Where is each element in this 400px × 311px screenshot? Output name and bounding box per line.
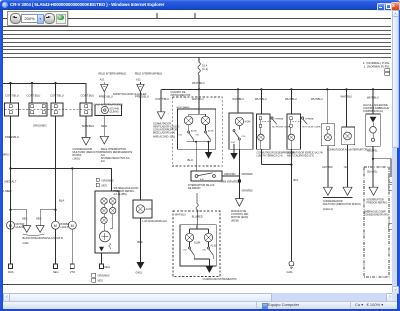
- window borders: [0, 10, 3, 311]
- node branch solenoid: [372, 158, 374, 160]
- tee split lower: [190, 225, 209, 234]
- pushbutton contact B: [301, 117, 321, 128]
- internal wires: [104, 204, 113, 231]
- svg-text:PRESION REFRIG.: PRESION REFRIG.: [367, 201, 388, 204]
- svg-text:BLU/YEL: BLU/YEL: [367, 149, 378, 152]
- svg-text:GRY/BLK: GRY/BLK: [322, 166, 333, 169]
- wire drop to washer motor: [71, 169, 73, 222]
- svg-text:BLK/YEL: BLK/YEL: [367, 170, 378, 173]
- svg-text:ON: ON: [183, 250, 187, 252]
- svg-text:WHT/BLU: WHT/BLU: [255, 97, 267, 101]
- zoom toolbar: [7, 11, 68, 26]
- title bar: [0, 0, 400, 10]
- feed terminals above relay box: [96, 178, 99, 181]
- node: junction dots on left bus: [9, 82, 56, 84]
- fuse wire lower: [198, 75, 200, 89]
- noise suppressor box A21-A45: [95, 105, 122, 116]
- wire boxD to ECM: [238, 149, 240, 198]
- wire branch y209.7 left: [11, 210, 27, 226]
- svg-text:WHT/BLU: WHT/BLU: [285, 97, 297, 101]
- node dot at x73: [71, 167, 73, 169]
- svg-text:A B: A B: [200, 178, 204, 181]
- svg-text:A1:B2 (MAIN): A1:B2 (MAIN): [177, 106, 190, 109]
- svg-text:A1:B3: A1:B3: [211, 245, 218, 248]
- lamp box E: [342, 127, 355, 145]
- svg-text:PRESION REFRIGERANTE: PRESION REFRIGERANTE: [101, 151, 133, 154]
- solenoid / diode box: [366, 114, 381, 146]
- close button: [391, 2, 400, 11]
- ground arrow under boxC: [323, 187, 332, 195]
- diode triangle in relay box: [99, 247, 104, 252]
- svg-text:CUADRO DE INSTRUMENTOS: CUADRO DE INSTRUMENTOS: [203, 278, 237, 281]
- wire boxE down: [347, 145, 349, 188]
- wire into boxA: [260, 89, 262, 114]
- svg-text:CONT.BLU: CONT.BLU: [50, 94, 64, 98]
- lamp A1:B4: [185, 233, 201, 244]
- ground arrow under boxE: [343, 187, 352, 195]
- wire M3 to terminal: [71, 229, 73, 264]
- svg-text:CONT.BLU: CONT.BLU: [27, 94, 41, 98]
- ground arrow G401-a: [23, 226, 31, 233]
- svg-text:GRN/RED: GRN/RED: [242, 189, 253, 192]
- svg-text:G401: G401: [23, 242, 30, 245]
- fuse 15A wire: [198, 57, 200, 62]
- svg-text:GRIS/NEG: GRIS/NEG: [102, 180, 114, 183]
- switch contacts in cluster: [179, 125, 215, 143]
- svg-text:A:DM: A:DM: [245, 121, 251, 124]
- svg-text:OPRIMA: OPRIMA: [305, 118, 314, 121]
- label MODULO CONTROL MOTOR: [231, 210, 249, 222]
- svg-text:(C-1): (C-1): [202, 67, 208, 71]
- svg-text:CONT.BLU: CONT.BLU: [5, 94, 19, 98]
- legend connector pins: [385, 69, 390, 72]
- brake switch box: [191, 171, 222, 181]
- svg-text:LUZ INDICADORA A/A: LUZ INDICADORA A/A: [143, 220, 168, 223]
- dashed link to pushbutton B: [293, 121, 302, 123]
- svg-text:LAVA P: LAVA P: [61, 226, 69, 229]
- svg-text:(2LB-W): (2LB-W): [16, 226, 25, 229]
- ground triangle G401 A22: [136, 262, 144, 269]
- svg-text:1. (NORMALP) RG.: 1. (NORMALP) RG.: [364, 65, 391, 69]
- svg-text:MED.ALT: MED.ALT: [5, 180, 17, 184]
- dashed link to pushbutton A: [262, 121, 271, 123]
- terminal T4: [100, 264, 104, 269]
- svg-text:A22: A22: [136, 77, 141, 81]
- svg-text:A21: A21: [100, 77, 105, 81]
- motor M1 blower: [7, 221, 15, 229]
- svg-text:WHT/BLU: WHT/BLU: [192, 81, 205, 85]
- wire lamp box down: [139, 218, 141, 262]
- svg-text:A/A (S-ABS): A/A (S-ABS): [114, 193, 127, 196]
- wire branch to page edge: [373, 159, 391, 176]
- svg-text:M: M: [9, 224, 12, 228]
- svg-text:WHT/BLU: WHT/BLU: [311, 97, 323, 101]
- svg-text:CONDENSADOR (RA): CONDENSADOR (RA): [364, 214, 389, 217]
- label CONMUTADOR VENTILADOR block: [153, 122, 180, 138]
- wire drop 2: [31, 83, 33, 103]
- svg-text:AMORTIGUADOR ALQUILER: AMORTIGUADOR ALQUILER: [113, 93, 147, 96]
- svg-text:NEG: NEG: [105, 266, 110, 269]
- wire drop 3: [55, 83, 57, 103]
- power bus lines: [3, 27, 391, 58]
- lamp relay box D: [229, 113, 253, 149]
- defogger switch box A: [257, 114, 271, 149]
- svg-text:GRN/ORN: GRN/ORN: [224, 173, 236, 176]
- wire W1 down: [10, 116, 12, 264]
- ground triangle lower cluster: [206, 266, 214, 273]
- horizontal scrollbar: [3, 293, 392, 301]
- svg-text:AIRE ACOND. (5-L): AIRE ACOND. (5-L): [153, 135, 175, 138]
- label VALVULA SOLENOIDE: [363, 104, 389, 113]
- svg-text:PRED.BLU: PRED.BLU: [99, 94, 113, 98]
- svg-text:BLU/RED: BLU/RED: [192, 215, 203, 218]
- ground arrow under C104: [82, 138, 90, 146]
- lower cluster inner box: [180, 225, 216, 266]
- node join: [290, 164, 292, 166]
- wire boxC down: [327, 146, 329, 187]
- resistor squiggle in relay box: [109, 243, 111, 249]
- label CONDENSADOR MULTIUSOS right: [323, 200, 361, 211]
- svg-text:NEG: NEG: [22, 218, 27, 221]
- svg-text:(1402): (1402): [73, 157, 80, 160]
- svg-text:WHT/BLU: WHT/BLU: [367, 95, 379, 99]
- svg-text:GRIS/NEG: GRIS/NEG: [98, 275, 110, 278]
- svg-text:NEG: NEG: [102, 185, 107, 188]
- wire into boxC: [326, 89, 328, 124]
- svg-text:15 A: 15 A: [202, 64, 208, 68]
- svg-text:YEL: YEL: [344, 166, 349, 169]
- svg-text:NEG: NEG: [101, 124, 107, 128]
- svg-text:ON: ON: [202, 250, 206, 252]
- wire W3 down: [55, 116, 57, 221]
- wire branch y209.7 right: [40, 210, 55, 226]
- IE icon: [2, 2, 8, 8]
- svg-text:ON: ON: [196, 135, 200, 137]
- lamp L4: [110, 207, 116, 213]
- label SISTEMA ANULACION relay box: [114, 187, 139, 196]
- connector C102: [29, 103, 47, 116]
- wire A21 down: [103, 92, 105, 105]
- thermal fuse squiggle mid: [196, 193, 198, 225]
- ground triangle cluster right: [205, 152, 212, 159]
- svg-text:G401: G401: [136, 271, 143, 275]
- svg-text:WHT/BLU: WHT/BLU: [175, 214, 186, 217]
- inline connector C408: [238, 179, 241, 182]
- svg-text:A2:PG: A2:PG: [146, 208, 153, 211]
- svg-text:OPRIMA: OPRIMA: [274, 118, 283, 121]
- wire A22 down: [139, 92, 141, 200]
- lamp A1:B6: [184, 116, 193, 125]
- svg-text:BLK: BLK: [138, 240, 143, 244]
- lamp L1: [101, 198, 107, 204]
- switch contacts lower: [183, 242, 213, 266]
- wire boxA down: [260, 149, 262, 164]
- connector C103: [51, 103, 63, 116]
- wire into solenoid box: [372, 89, 374, 114]
- lamp A1:B3: [204, 233, 217, 247]
- svg-text:S14: S14: [231, 142, 236, 144]
- bracket under arrows: [23, 234, 45, 236]
- svg-text:(MCM): (MCM): [231, 219, 239, 222]
- svg-text:GRIS/NEG: GRIS/NEG: [33, 124, 47, 128]
- wire into boxE: [346, 89, 348, 127]
- lamp L5: [101, 217, 107, 223]
- svg-text:M: M: [54, 224, 57, 228]
- label RELE INTERRUPTOR text block: [101, 148, 133, 163]
- lamp box A2:PG: [133, 200, 153, 218]
- svg-text:INSTRUMENTOS: INSTRUMENTOS: [170, 94, 190, 97]
- lamp L3: [101, 207, 107, 213]
- bottom frame line: [3, 284, 394, 286]
- dashed box lower cluster: [173, 211, 220, 277]
- joining bar under arrows: [323, 196, 353, 198]
- dash-dot box A/C compressor: [364, 167, 389, 277]
- svg-text:BLK: BLK: [294, 178, 299, 182]
- svg-text:NEG: NEG: [53, 271, 58, 274]
- edge fragment low: [389, 224, 394, 230]
- wire relay box down: [101, 253, 103, 264]
- dashed link through connectors: [5, 109, 93, 111]
- vertical scrollbar: [392, 10, 397, 292]
- svg-text:MAS: MAS: [8, 271, 14, 274]
- wire solenoid down: [372, 146, 374, 187]
- motor M2 pump: [52, 221, 60, 229]
- svg-text:RELE INTERRUMPIBLE: RELE INTERRUMPIBLE: [135, 73, 163, 76]
- motor M3 washer: [68, 221, 76, 229]
- svg-text:BLA: BLA: [59, 199, 64, 203]
- spare terminals pair: [92, 273, 96, 277]
- svg-text:MAS/BLU: MAS/BLU: [82, 124, 94, 128]
- svg-text:C16: C16: [242, 136, 247, 138]
- svg-text:NEG: NEG: [36, 218, 41, 221]
- wire boxB down: [290, 149, 292, 261]
- cluster inner box: [178, 109, 216, 149]
- label under boxB: [287, 151, 323, 157]
- lamp A1:B5: [201, 116, 210, 125]
- title text: [10, 2, 310, 9]
- svg-text:PRED.BLU: PRED.BLU: [5, 135, 19, 139]
- svg-text:G201: G201: [287, 271, 294, 274]
- join wire boxA to boxB: [262, 164, 292, 166]
- svg-text:CONT.BLU: CONT.BLU: [155, 97, 169, 101]
- connector arrow A21: [101, 82, 108, 92]
- node dot at W1 branch: [9, 167, 11, 169]
- svg-text:A/A: A/A: [101, 160, 105, 163]
- svg-text:WHT/BLU: WHT/BLU: [192, 97, 204, 101]
- connector C104: [80, 103, 92, 116]
- svg-text:C408 (GRN/RED): C408 (GRN/RED): [221, 181, 240, 184]
- svg-text:MULTIUSO (REDUCTOR RUIDO): MULTIUSO (REDUCTOR RUIDO): [323, 203, 361, 206]
- svg-text:LUNETA TERMICA (2.4): LUNETA TERMICA (2.4): [257, 154, 283, 157]
- svg-text:A1:B5: A1:B5: [208, 129, 215, 132]
- terminal T1: [9, 264, 13, 269]
- connector arrow heater switch: [157, 112, 165, 119]
- svg-text:ON: ON: [179, 135, 183, 137]
- wire GRN/ORN to ECM node: [222, 175, 239, 177]
- wire drop 4 (bus corner): [85, 83, 87, 103]
- terminal T2: [54, 264, 58, 269]
- wire M2 to terminal: [55, 229, 57, 264]
- wire below A21 box: [103, 115, 105, 136]
- terminal T3: [70, 264, 74, 269]
- svg-text:NO PULSE ODER: NO PULSE ODER: [272, 126, 290, 128]
- svg-text:CONT.BLU: CONT.BLU: [81, 94, 95, 98]
- chassis ground G201: [287, 261, 294, 274]
- wire into cluster: [198, 89, 200, 114]
- wire M1 to terminal: [10, 229, 12, 264]
- defogger switch box B: [287, 114, 301, 149]
- svg-text:BLANCO/NEGRO/MASA CHASIS B: BLANCO/NEGRO/MASA CHASIS B: [23, 237, 63, 240]
- svg-text:A1:B6: A1:B6: [191, 129, 198, 132]
- wire: right feeder bus: [162, 89, 393, 91]
- relay box under hood: [95, 191, 119, 253]
- svg-text:M: M: [71, 224, 74, 228]
- lamp L2: [110, 198, 116, 204]
- label under boxes C/E: [327, 149, 374, 152]
- wire drop 1: [10, 83, 12, 103]
- svg-text:DE FRENO: DE FRENO: [188, 187, 200, 190]
- label compressor block: [364, 198, 389, 216]
- fuse 15A symbol: [198, 62, 200, 75]
- dashed box instrument cluster: [172, 97, 222, 166]
- svg-text:MEZCLADOR (A/A): MEZCLADOR (A/A): [153, 131, 175, 134]
- wire into boxB: [290, 89, 292, 114]
- label under boxA: [257, 151, 295, 157]
- svg-text:A1:B4: A1:B4: [194, 242, 201, 245]
- ground arrow A21: [100, 136, 108, 144]
- tick mark x157: [156, 13, 158, 18]
- ECM connector arrow: [235, 199, 243, 207]
- pushbutton contact A: [271, 117, 291, 128]
- svg-text:NEG: NEG: [98, 280, 103, 283]
- svg-text:RELE INTERRUMPIBLE: RELE INTERRUMPIBLE: [99, 73, 127, 76]
- wire C104 stub: [85, 116, 87, 137]
- wire bus2 left drop: [160, 89, 162, 112]
- ground arrow G401-b: [36, 226, 44, 233]
- page frame line: [3, 18, 391, 20]
- svg-text:(G201-1): (G201-1): [323, 208, 333, 211]
- connector arrow A22: [137, 82, 144, 92]
- wire branch y168.5: [11, 169, 112, 192]
- connector arrow compressor: [369, 187, 378, 195]
- tick mark x195: [194, 13, 196, 18]
- min button: [377, 3, 385, 11]
- tee split: [189, 114, 206, 116]
- wire: left feeder bus: [3, 83, 86, 85]
- relay coil circle: [100, 231, 111, 242]
- svg-text:(2LB-W): (2LB-W): [110, 111, 119, 114]
- svg-text:NO PULSE ODER: NO PULSE ODER: [303, 126, 321, 128]
- max button: [384, 3, 392, 11]
- lamp box C: [321, 124, 334, 146]
- wire BLU out of cluster: [195, 142, 197, 171]
- status bar: [3, 301, 397, 309]
- node dots on right bus: [198, 88, 374, 90]
- svg-text:SISTEMA REACTIVO A/A: SISTEMA REACTIVO A/A: [101, 157, 130, 160]
- connector C101: [5, 103, 19, 116]
- svg-text:GRN/RED: GRN/RED: [242, 173, 253, 176]
- wire into boxD: [237, 89, 239, 113]
- svg-text:BLU: BLU: [188, 158, 193, 162]
- svg-text:VTO: VTO: [70, 271, 75, 274]
- svg-text:ABAT./CALENTADO (2T): ABAT./CALENTADO (2T): [287, 154, 314, 157]
- ground triangle boxD: [230, 153, 237, 160]
- edge connector fragments: [389, 176, 394, 183]
